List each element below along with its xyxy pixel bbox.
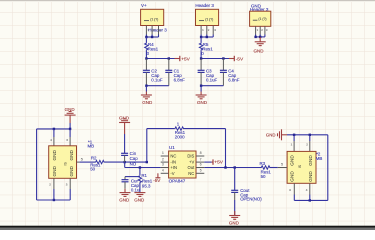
header 3 pins	[256, 26, 265, 34]
ground GND col B	[196, 86, 208, 105]
right connector bottom pins	[289, 183, 310, 200]
svg-text:OPEN(NO): OPEN(NO)	[240, 197, 262, 202]
svg-text:6.8nF: 6.8nF	[228, 78, 240, 83]
svg-text:NC: NC	[170, 153, 176, 158]
capacitor Cout branch wire	[234, 168, 236, 191]
svg-text:+V: +V	[189, 159, 194, 164]
svg-text:GND: GND	[254, 48, 265, 53]
svg-text:Res1: Res1	[202, 46, 213, 51]
svg-text:OPA847: OPA847	[169, 179, 186, 184]
svg-text:0.1uF: 0.1uF	[151, 78, 163, 83]
capacitor Cin	[121, 151, 138, 166]
svg-text:GND: GND	[290, 171, 295, 182]
svg-text:-IN: -IN	[170, 159, 176, 164]
wire header2 pins join	[200, 35, 213, 39]
power flag -5V (top)	[229, 56, 244, 63]
op-amp U1 part number OPA847	[169, 179, 186, 184]
svg-text:GND: GND	[119, 198, 130, 203]
svg-text:GND: GND	[290, 155, 295, 166]
op-amp U1 designator	[169, 145, 175, 150]
top window border line	[0, 0, 375, 1]
svg-text:R1: R1	[141, 173, 147, 178]
wire right connector loop right	[327, 135, 329, 201]
svg-text:GND: GND	[69, 149, 74, 160]
svg-text:MB: MB	[88, 144, 95, 149]
header 3 pin numbers	[257, 28, 268, 32]
svg-text:Header 3: Header 3	[148, 27, 167, 32]
wire pin5 to R2	[80, 161, 96, 163]
svg-text:-5V: -5V	[153, 178, 161, 183]
connector P2 box	[287, 151, 316, 183]
header J? V+ label	[141, 3, 147, 8]
svg-text:Header 3: Header 3	[195, 3, 214, 8]
left connector label P1 MB	[88, 139, 95, 148]
power flag -5V at pin 4	[153, 173, 161, 183]
wire header1 pins join	[145, 35, 158, 39]
svg-text:0.1uF: 0.1uF	[206, 78, 218, 83]
capacitor C4	[220, 59, 240, 86]
header 1 pin numbers	[147, 28, 161, 32]
ground GND under Cout	[229, 200, 240, 226]
svg-text:MB: MB	[316, 156, 323, 161]
wire R3 to connector	[270, 167, 278, 169]
wire caps bottom rail col B	[200, 85, 224, 87]
header 3 comment Header 3	[250, 7, 269, 12]
wire R4 to +5V rail	[145, 50, 174, 60]
svg-text:GND: GND	[134, 198, 145, 203]
connector header box 2	[196, 9, 219, 25]
svg-text:3: 3	[162, 163, 164, 167]
svg-text:NO: NO	[130, 162, 137, 167]
ground GND col A	[141, 86, 153, 105]
ground GND under R1	[134, 193, 145, 203]
svg-text:GND: GND	[119, 115, 130, 120]
svg-text:6.8nF: 6.8nF	[174, 78, 186, 83]
svg-text:GND: GND	[52, 165, 57, 176]
wire caps bottom rail col A	[145, 85, 169, 87]
svg-text:6: 6	[200, 163, 202, 167]
svg-text:GND: GND	[308, 171, 313, 182]
svg-text:GND: GND	[229, 221, 240, 226]
svg-text:50: 50	[90, 167, 95, 172]
wire R1 to ground	[139, 183, 141, 193]
svg-text:50: 50	[261, 174, 266, 179]
resistor R5	[199, 42, 213, 56]
svg-text:GND: GND	[52, 149, 57, 160]
svg-text:5: 5	[200, 168, 202, 172]
svg-text:V+: V+	[141, 3, 147, 8]
op-amp right pins	[196, 151, 204, 173]
capacitor Cout	[231, 188, 262, 202]
svg-text:0.1u: 0.1u	[131, 187, 140, 192]
ground GND under Cur	[119, 189, 130, 203]
left connector bottom pins	[49, 178, 70, 200]
svg-text:R3: R3	[260, 161, 266, 166]
right connector top pins	[291, 135, 310, 152]
resistor R1	[138, 173, 153, 188]
svg-text:2000: 2000	[175, 135, 185, 140]
wire node to R1 Cur branch	[125, 168, 140, 177]
svg-text:GND: GND	[69, 165, 74, 176]
svg-text:(1 (?): (1 (?)	[205, 18, 213, 22]
header 2 label Header 3	[195, 3, 214, 8]
svg-text:4: 4	[162, 168, 164, 172]
svg-text:5: 5	[281, 163, 283, 167]
header 3 label GND	[251, 3, 262, 8]
wire feedback loop	[147, 129, 226, 168]
header 2 pin numbers	[202, 28, 216, 32]
svg-text:-V: -V	[170, 171, 174, 176]
svg-text:GND: GND	[266, 133, 276, 138]
op-amp left pins	[161, 151, 169, 173]
svg-text:U1: U1	[169, 145, 175, 150]
svg-text:-5V: -5V	[236, 56, 244, 62]
left connector top pins	[50, 129, 70, 146]
svg-text:8: 8	[200, 151, 202, 155]
svg-text:R2: R2	[91, 156, 97, 161]
wire R5 to -5V rail	[200, 50, 229, 60]
power flag +5V at pin 7	[204, 159, 223, 165]
svg-text:Res1: Res1	[148, 46, 159, 51]
svg-text:7: 7	[200, 157, 202, 161]
svg-text:+5V: +5V	[214, 160, 223, 166]
connector P1 box	[49, 146, 77, 179]
power flag +5V (top)	[175, 56, 191, 63]
wire header2 to R5	[200, 37, 202, 43]
svg-text:GND: GND	[142, 100, 153, 105]
resistor R2	[90, 156, 104, 172]
left connector pin 5	[77, 158, 83, 162]
ground GND above left connector	[65, 107, 76, 129]
svg-text:+5V: +5V	[181, 56, 190, 62]
svg-text:1: 1	[162, 151, 164, 155]
resistor Rf feedback	[175, 122, 186, 140]
capacitor C3	[198, 59, 218, 86]
svg-text:Out: Out	[188, 165, 196, 170]
ground GND header3	[254, 37, 266, 53]
connector header box 3	[250, 11, 271, 26]
capacitor C2	[143, 59, 163, 86]
ground GND right section	[266, 129, 287, 140]
connector header box 1	[141, 9, 164, 25]
wire output net	[204, 166, 261, 168]
svg-text:DIS: DIS	[187, 153, 194, 158]
svg-text:2: 2	[162, 157, 164, 161]
wire left connector loop left	[36, 129, 38, 200]
header 1 pins	[146, 26, 158, 35]
right connector label P2 MB	[316, 152, 323, 161]
header 2 pins	[201, 26, 213, 35]
op-amp U1 body	[169, 151, 196, 178]
svg-text:GND: GND	[308, 155, 313, 166]
svg-text:+IN: +IN	[170, 165, 177, 170]
wire header1 to R4	[145, 37, 147, 43]
header 1 comment Header 3	[148, 27, 167, 32]
wire header3 pins join	[254, 35, 265, 39]
svg-text:(1 (?): (1 (?)	[150, 18, 158, 22]
wire right connector bottom	[294, 199, 328, 201]
right connector pin 5	[278, 163, 287, 168]
capacitor C1	[165, 59, 185, 86]
resistor R4	[145, 42, 159, 56]
svg-text:5: 5	[81, 158, 83, 162]
svg-text:95.3: 95.3	[142, 183, 151, 188]
wire left connector top	[37, 128, 72, 130]
bottom status strip	[0, 228, 375, 230]
svg-text:Cap: Cap	[130, 156, 139, 161]
wire R2 to input node	[104, 161, 148, 163]
svg-text:NC: NC	[188, 171, 194, 176]
wire left connector bottom	[37, 199, 71, 201]
capacitor Cur	[122, 177, 141, 193]
svg-text:(1 (?): (1 (?)	[258, 17, 266, 21]
svg-text:GND: GND	[197, 100, 208, 105]
wire right connector top	[287, 134, 328, 136]
bottom border black line	[0, 226, 375, 228]
resistor R3	[260, 161, 272, 179]
ground GND above Cin	[119, 115, 130, 153]
wire input step to +IN	[125, 162, 161, 169]
